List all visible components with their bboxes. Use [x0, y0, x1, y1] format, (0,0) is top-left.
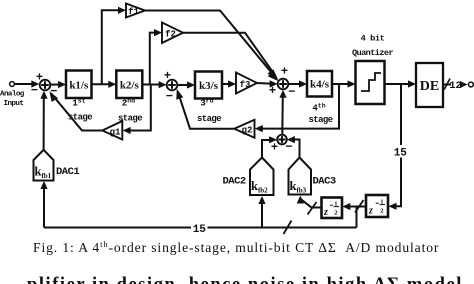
DAC3 block kfb3 — [289, 158, 312, 195]
wire k4/s to quantizer — [332, 80, 356, 87]
quantizer block — [356, 61, 385, 104]
svg-text:f2: f2 — [165, 30, 176, 40]
svg-text:k4/s: k4/s — [310, 79, 330, 91]
svg-text:−: − — [166, 90, 173, 104]
wire S3 to k4/s — [288, 80, 307, 87]
label 15 (vertical feedback bus) — [394, 145, 408, 160]
wire: tap up to f2 — [150, 29, 162, 85]
svg-text:plifier in design, hence noise: plifier in design, hence noise in high Δ… — [27, 275, 463, 284]
wire: tap up to f1 — [102, 7, 126, 85]
bus slash on feedback line — [284, 221, 292, 235]
svg-text:2nd: 2nd — [122, 98, 135, 109]
wire feedback bus up to DAC1 — [40, 181, 47, 228]
integrator k3/s — [195, 72, 222, 99]
wire: bus tap down to feedback line — [356, 207, 358, 228]
local feedback gain g2 — [234, 120, 254, 138]
label 2nd stage — [118, 98, 142, 124]
svg-text:+: + — [269, 84, 276, 98]
svg-text:stage: stage — [197, 114, 221, 124]
svg-text:stage: stage — [308, 115, 332, 125]
svg-text:k1/s: k1/s — [69, 80, 89, 92]
svg-text:15: 15 — [394, 148, 408, 160]
svg-text:g1: g1 — [110, 127, 121, 137]
summing junction S4 (DAC2/DAC3 combiner) — [277, 135, 287, 145]
svg-text:kfb3: kfb3 — [290, 179, 307, 195]
bus slash at DE output — [444, 79, 450, 90]
wire delay left to DAC3 — [297, 196, 322, 208]
svg-text:f3: f3 — [240, 80, 251, 90]
wire: feedback tap from quantizer output down — [389, 84, 402, 210]
bus slash between delay blocks — [355, 200, 364, 213]
wire delay right to delay left — [342, 203, 366, 210]
summing junction S3 — [278, 79, 289, 90]
wire DAC1 to summer S1 — [40, 91, 47, 150]
svg-text:15: 15 — [193, 224, 207, 236]
wire g1 to summer S1 — [49, 91, 102, 130]
wire feedback bus up to DAC2 — [258, 196, 265, 228]
svg-text:DAC3: DAC3 — [313, 176, 336, 188]
svg-text:DE: DE — [420, 79, 439, 94]
summing junction S1 — [40, 80, 51, 91]
label 3rd stage — [197, 98, 221, 125]
integrator k1/s — [66, 71, 92, 99]
feedforward gain f3 — [236, 73, 257, 94]
svg-text:k2/s: k2/s — [120, 80, 140, 92]
wire DE to output — [443, 84, 451, 86]
svg-text:kfb2: kfb2 — [251, 179, 268, 195]
svg-text:1st: 1st — [72, 98, 85, 109]
feedforward gain f1 — [126, 4, 145, 18]
bus slash on DAC3 feed — [308, 202, 317, 215]
svg-text:−: − — [31, 84, 38, 98]
wire f1 to summer S3 — [145, 11, 279, 82]
wire S2 to k3/s — [177, 81, 195, 88]
svg-text:4 bit: 4 bit — [361, 34, 385, 44]
svg-text:kfb1: kfb1 — [35, 165, 52, 181]
svg-text:+: + — [164, 69, 171, 83]
wire DAC3 to S4 — [287, 136, 300, 158]
label 1st stage — [68, 98, 92, 123]
wire arrow to output terminal — [460, 81, 468, 88]
wire f2 to summer S3 — [183, 33, 278, 80]
wire S1 to k1/s — [50, 81, 66, 88]
svg-text:+: + — [271, 141, 278, 155]
node: analog input terminal — [10, 82, 15, 87]
integrator k2/s — [116, 71, 142, 99]
integrator k4/s — [307, 71, 332, 97]
half-delay block z^-1/2 (right) — [366, 195, 388, 217]
DAC2 block kfb2 — [250, 158, 274, 196]
svg-text:−: − — [285, 140, 292, 154]
label 4th stage — [308, 103, 332, 126]
svg-text:12: 12 — [449, 80, 462, 92]
label 4 bit Quantizer — [352, 34, 393, 59]
DE block — [416, 63, 443, 107]
wire k2/s to summer S2 — [142, 81, 166, 88]
svg-text:g2: g2 — [242, 126, 253, 136]
svg-text:+: + — [36, 71, 43, 85]
summing junction S2 — [167, 80, 178, 91]
quantizer staircase symbol — [361, 73, 381, 91]
wire f3 to summer S3 — [257, 80, 278, 87]
wire: tap down to g2 — [255, 84, 339, 132]
feedforward gain f2 — [162, 23, 183, 44]
wire g2 to summer S2 — [176, 89, 234, 129]
svg-text:−: − — [288, 85, 295, 99]
svg-text:Fig. 1: A 4th-order single-sta: Fig. 1: A 4th-order single-stage, multi-… — [33, 239, 439, 255]
wire S4 up to summer S3 — [279, 90, 286, 135]
svg-text:2: 2 — [334, 210, 338, 217]
half-delay block z^-1/2 (left) — [322, 198, 343, 219]
svg-text:k3/s: k3/s — [199, 80, 219, 92]
svg-text:Quantizer: Quantizer — [352, 48, 393, 58]
svg-text:DAC1: DAC1 — [56, 166, 79, 178]
svg-text:f1: f1 — [128, 7, 139, 17]
svg-text:Input: Input — [4, 100, 24, 108]
svg-text:4th: 4th — [312, 103, 325, 114]
wire quantizer to DE — [385, 80, 417, 87]
svg-text:z: z — [323, 207, 328, 218]
svg-text:2: 2 — [380, 208, 384, 215]
wire DAC2 to S4 — [262, 136, 277, 157]
wire k3/s to f3 — [222, 80, 236, 87]
svg-text:z: z — [368, 206, 373, 217]
svg-text:3rd: 3rd — [200, 98, 213, 109]
DAC1 block kfb1 — [34, 150, 54, 181]
wire: tap down to g1 — [123, 85, 151, 135]
wire k1/s to k2/s — [92, 81, 117, 88]
feedback bus line to DACs — [44, 227, 357, 229]
svg-text:+: + — [281, 65, 288, 79]
svg-text:Analog: Analog — [0, 91, 25, 99]
node: output terminal — [469, 82, 474, 87]
svg-text:DAC2: DAC2 — [223, 176, 246, 188]
local feedback gain g1 — [102, 121, 122, 140]
wire: input to summer S1 — [15, 80, 40, 87]
label Analog Input — [0, 91, 25, 109]
